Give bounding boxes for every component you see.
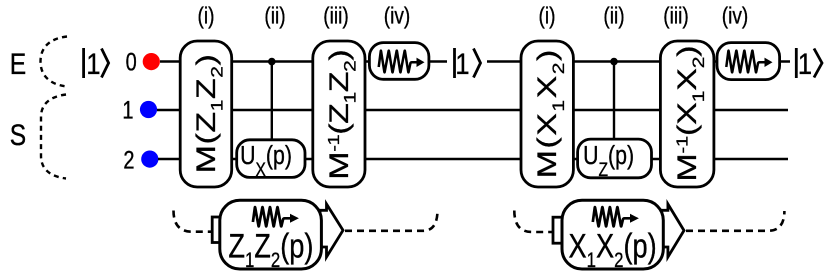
dashed callout entry right xyxy=(514,211,555,233)
dashed callout exit right xyxy=(686,211,784,231)
gate M-1(X1X2) xyxy=(660,41,714,187)
svg-text:(i): (i) xyxy=(539,4,556,29)
emission pill right xyxy=(717,43,780,80)
pulse box left tab xyxy=(212,217,232,243)
ket |1> mid xyxy=(455,48,481,78)
brace S (dashed) xyxy=(41,95,66,179)
squiggle photon left pulse box xyxy=(253,207,291,226)
pulse box right tab xyxy=(553,217,573,243)
squiggle photon right pill xyxy=(726,51,765,73)
svg-text:(iv): (iv) xyxy=(384,4,410,29)
wire 0 segment B xyxy=(487,60,790,62)
squiggle photon left pill xyxy=(379,51,418,73)
wire 1 xyxy=(157,109,788,111)
pulse box right body xyxy=(562,200,663,269)
pulse box left body xyxy=(220,200,322,269)
svg-text:(iii): (iii) xyxy=(323,4,348,29)
control dot left xyxy=(268,58,276,66)
blue dot qubit 1 xyxy=(140,101,157,118)
svg-text:1: 1 xyxy=(122,97,133,125)
svg-text:(ii): (ii) xyxy=(264,4,285,29)
svg-text:2: 2 xyxy=(123,146,134,174)
svg-text:S: S xyxy=(10,118,26,152)
emission pill left xyxy=(369,43,429,80)
pulse box left arrow xyxy=(320,204,343,257)
pulse box right arrow xyxy=(661,204,684,257)
blue dot qubit 2 xyxy=(141,151,158,168)
brace E (dashed) xyxy=(41,37,68,87)
ket |1> input on wire 0 xyxy=(84,48,109,78)
dashed callout entry left xyxy=(174,211,215,232)
red dot qubit 0 xyxy=(143,53,160,70)
ket |1> output right xyxy=(796,48,822,78)
control line right xyxy=(613,62,615,142)
svg-text:1: 1 xyxy=(455,47,469,80)
svg-text:(iii): (iii) xyxy=(663,4,688,29)
gate M-1(Z1Z2) xyxy=(313,41,365,187)
svg-text:1: 1 xyxy=(798,47,812,80)
svg-text:E: E xyxy=(10,47,26,81)
gate UX(p) xyxy=(237,140,305,178)
svg-text:1: 1 xyxy=(86,47,100,80)
svg-text:0: 0 xyxy=(126,49,137,77)
gate M(X1X2) xyxy=(521,41,573,187)
wire 2 xyxy=(158,158,788,160)
svg-text:(iv): (iv) xyxy=(722,4,748,29)
squiggle photon right pulse box xyxy=(593,207,631,226)
gate M(Z1Z2) xyxy=(180,41,232,187)
control line left xyxy=(271,62,273,142)
svg-text:(i): (i) xyxy=(198,4,215,29)
gate UZ(p) xyxy=(578,139,652,178)
dashed callout exit left xyxy=(345,210,438,231)
control dot right xyxy=(610,58,618,66)
wire 0 segment A xyxy=(160,60,447,62)
svg-text:(ii): (ii) xyxy=(603,4,624,29)
